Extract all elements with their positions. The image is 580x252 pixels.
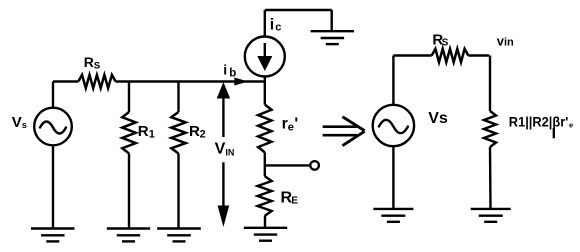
svg-text:S: S	[442, 38, 449, 49]
svg-text:Vs: Vs	[428, 110, 448, 127]
svg-text:i: i	[223, 62, 227, 78]
svg-text:S: S	[94, 61, 100, 72]
svg-text:e: e	[288, 122, 294, 134]
svg-text:e: e	[569, 120, 573, 129]
svg-text:in: in	[504, 37, 514, 49]
svg-text:R: R	[189, 123, 200, 140]
svg-text:R1||R2|βr': R1||R2|βr'	[509, 114, 569, 130]
svg-text:c: c	[275, 21, 281, 33]
svg-text:s: s	[22, 120, 27, 130]
svg-text:2: 2	[200, 129, 206, 141]
svg-text:V: V	[12, 114, 22, 131]
svg-text:1: 1	[149, 129, 155, 141]
svg-text:R: R	[138, 123, 149, 140]
svg-text:': '	[294, 116, 298, 133]
svg-text:R: R	[84, 54, 94, 70]
svg-text:IN: IN	[225, 147, 234, 157]
svg-text:E: E	[291, 196, 298, 207]
svg-text:b: b	[229, 67, 236, 79]
svg-text:V: V	[215, 140, 226, 157]
svg-text:i: i	[270, 17, 274, 34]
